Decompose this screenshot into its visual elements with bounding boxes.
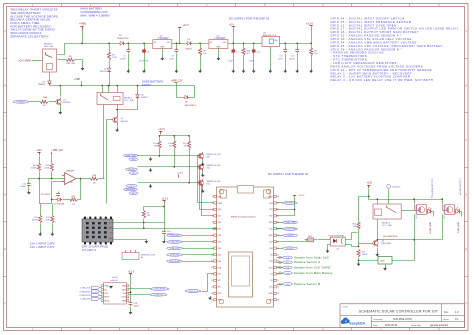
transistor Q1: [55, 98, 62, 106]
wire pullup bus: [161, 135, 190, 136]
wire esp left row1: [198, 156, 214, 203]
wire esp right stub 4: [277, 248, 284, 250]
note gpio list: [331, 16, 459, 82]
label C12: [289, 56, 296, 61]
svg-text:19: 19: [277, 293, 279, 295]
label C4: [228, 52, 239, 63]
net flag V ps: [283, 283, 293, 286]
label M2: [207, 165, 222, 170]
label D4: [185, 39, 193, 50]
resistor R7a: [158, 141, 161, 149]
note safe battery: [142, 80, 163, 88]
label M1: [207, 154, 222, 159]
ground gnd under C11: [283, 69, 287, 73]
wire +VBP bus: [50, 85, 195, 87]
svg-text:R5A: R5A: [43, 96, 48, 99]
label R7a: [153, 143, 157, 148]
wire D5 bot to bus: [49, 85, 51, 87]
resistor R9: [199, 48, 202, 56]
wire lora reset wire: [129, 288, 151, 290]
label R5A: [43, 96, 48, 107]
resistor R5b: [91, 177, 99, 180]
ground gnd C14: [162, 240, 166, 244]
label R5b: [93, 175, 98, 184]
net flag + CAS OPEN: [283, 221, 298, 224]
svg-text:PROXIMITY: PROXIMITY: [285, 203, 296, 205]
net flag LORA_DIO0: [185, 290, 201, 293]
svg-text:10k: 10k: [154, 145, 157, 147]
svg-text:MISO: MISO: [105, 297, 110, 299]
svg-text:Sheet: Sheet: [443, 318, 449, 321]
svg-text:3V3: 3V3: [123, 293, 126, 295]
wire right r24 tap: [359, 197, 369, 223]
net flag V sf: [283, 266, 293, 269]
svg-text:GND: GND: [105, 286, 110, 288]
LED Q7: [456, 207, 460, 214]
ground U5 gnd: [268, 69, 272, 73]
power flag +3.3V esp: [293, 195, 305, 197]
label C15: [20, 184, 27, 189]
wire esp right sample V ps: [277, 284, 284, 286]
junction j led bus: [413, 239, 415, 241]
wire lower div top: [40, 179, 52, 204]
ground gnd row1 left: [149, 157, 153, 161]
power flag +3.3V: [306, 23, 313, 44]
svg-text:+3.3 V: +3.3 V: [177, 173, 184, 175]
wire esp right stub 0: [277, 202, 284, 204]
svg-text:SUN RISE JOHN: SUN RISE JOHN: [393, 318, 412, 321]
wire D6 top: [137, 86, 139, 93]
wire D6 bottom: [118, 101, 138, 110]
net flag GND c: [129, 192, 138, 195]
junction j d6 top: [137, 85, 139, 87]
wire esp right stub 1: [277, 222, 284, 224]
note relay short-circuit: [10, 8, 58, 39]
svg-text:+Q V SAFE: +Q V SAFE: [18, 59, 31, 62]
svg-text:26: 26: [277, 248, 279, 250]
junction j n1: [38, 178, 40, 180]
label R7c: [183, 143, 186, 148]
net flag GND b: [129, 172, 138, 175]
junction j r15 bot: [358, 260, 360, 262]
junction j esp right: [294, 209, 296, 211]
pin mark Vrs.: [279, 261, 282, 263]
wire R17 bot: [52, 224, 54, 233]
wire main rail: [65, 43, 119, 45]
note main battery: [80, 7, 109, 18]
svg-text:GND: GND: [218, 203, 223, 205]
wire lora wire LORA_SCK: [100, 287, 102, 289]
net flag +12V in: [126, 184, 137, 187]
wire R10 bot: [39, 172, 41, 179]
pin mark V sf: [279, 267, 282, 269]
wire lora dio wire: [202, 291, 208, 293]
svg-text:RELAY2: RELAY2: [124, 97, 133, 100]
module U6 LoRa: [101, 277, 129, 304]
junction j pullup 2: [188, 135, 190, 137]
wire +VMB drop: [82, 31, 84, 44]
svg-text:GND: GND: [218, 300, 223, 302]
svg-text:33: 33: [277, 203, 279, 205]
wire R5b to col: [99, 178, 105, 180]
svg-text:U10b: U10b: [380, 261, 385, 263]
ground gnd under C12: [295, 69, 299, 73]
capacitor C11: [283, 48, 287, 53]
svg-text:D34: D34: [218, 267, 221, 269]
svg-text:10k: 10k: [203, 53, 206, 55]
resistor R12: [70, 198, 78, 201]
diode D8: [184, 95, 190, 99]
net flag GND a: [129, 158, 138, 161]
junction rail j9: [253, 43, 255, 45]
ground gnd R15: [357, 262, 361, 266]
ground gnd under C4: [231, 69, 235, 73]
pin mark V ps: [279, 283, 282, 285]
wire R7c bot: [189, 149, 191, 183]
net flag LORA_SCK: [80, 286, 99, 289]
wire branch Q7 bot: [442, 215, 444, 240]
junction j fb: [51, 199, 53, 201]
wire R6 bot: [143, 219, 145, 229]
wire led return bus2: [414, 240, 416, 261]
svg-text:1.5W: 1.5W: [112, 57, 117, 59]
svg-text:11V + INPUT 2.37V: 11V + INPUT 2.37V: [30, 245, 55, 249]
svg-text:MOSI: MOSI: [105, 300, 110, 302]
capacitor C12: [295, 48, 299, 53]
wire lora wire LORA_MISO: [100, 291, 102, 293]
label M4: [141, 255, 156, 260]
label R6 dht: [147, 213, 150, 218]
label D8: [185, 102, 197, 108]
svg-text:L7812ABV: L7812ABV: [158, 37, 169, 40]
net flag ON/OFF: [283, 234, 298, 237]
svg-text:EasyEDA: EasyEDA: [350, 322, 366, 326]
svg-text:C17 100nF: C17 100nF: [41, 194, 51, 196]
svg-text:DHT'S: DHT'S: [83, 217, 89, 219]
svg-text:TITLE:: TITLE:: [342, 306, 348, 308]
resistor R16: [50, 164, 53, 172]
wire esp left row3: [202, 183, 214, 216]
ground gnd row2 left: [149, 168, 153, 172]
wire R7a bot: [159, 149, 161, 156]
wire U2 gnd wire: [162, 49, 164, 57]
relay RELAY1: [43, 49, 57, 72]
wire relay1 coil down: [49, 73, 51, 80]
svg-text:14: 14: [211, 280, 213, 282]
svg-text:1N4007RLG: 1N4007RLG: [117, 38, 129, 40]
wire stub C10 top: [253, 44, 255, 49]
relay RELAY3: [373, 204, 401, 219]
wire branch Q6 out: [431, 212, 434, 217]
junction j r2: [173, 166, 175, 168]
svg-text:21: 21: [277, 280, 279, 282]
svg-text:ESP32: ESP32: [142, 83, 151, 87]
svg-text:12: 12: [211, 267, 213, 269]
wire col x109 mid: [109, 61, 111, 68]
svg-text:1N4748: 1N4748: [99, 71, 107, 73]
wire stub C8 bot: [176, 54, 178, 70]
capacitor C5: [126, 48, 130, 53]
wire Q2 base wire: [107, 120, 112, 204]
wire opamp out: [77, 178, 91, 180]
junction j r15 top: [358, 246, 360, 248]
svg-text:RX0: RX0: [269, 222, 273, 224]
wire esp right sample V sl: [277, 257, 284, 259]
wire pullup R7c top: [189, 136, 191, 142]
wire opto out top: [346, 233, 358, 240]
svg-text:DIO0: DIO0: [122, 297, 126, 299]
capacitor C8: [175, 48, 179, 53]
power flag +12V opamp: [36, 150, 42, 155]
wire stub R9 top: [200, 44, 202, 49]
wire C14 top: [164, 223, 166, 230]
svg-text:CHGLED: CHGLED: [392, 187, 401, 189]
label Q5: [382, 240, 392, 245]
svg-text:LoRa1: LoRa1: [112, 277, 119, 279]
svg-text:2N3904: 2N3904: [121, 121, 129, 123]
svg-text:D33: D33: [218, 248, 221, 250]
svg-text:TO GPIO 4: TO GPIO 4: [82, 248, 96, 252]
svg-text:Drawn By:: Drawn By:: [411, 324, 421, 327]
svg-text:D10 1N4007RLG: D10 1N4007RLG: [383, 236, 398, 238]
wire relay3 bot pin: [377, 220, 379, 240]
svg-text:BSS8123 4-1-3P: BSS8123 4-1-3P: [415, 205, 417, 219]
svg-text:Sample from Solar Cell: Sample from Solar Cell: [294, 255, 329, 259]
power flag +3.3V mid: [177, 173, 184, 178]
wire rail seg6: [280, 43, 312, 45]
svg-text:2019-05-29: 2019-05-29: [385, 324, 398, 327]
wire Q5 emitter: [377, 248, 379, 253]
svg-text:LORA_RESET: LORA_RESET: [169, 260, 180, 263]
junction j led bus2: [377, 239, 379, 241]
svg-text:LORA_DIO0: LORA_DIO0: [188, 290, 198, 293]
svg-text:LORA_RESET: LORA_RESET: [154, 288, 165, 291]
svg-text:GND: GND: [269, 293, 274, 295]
svg-text:10uF: 10uF: [278, 58, 283, 60]
wire M2 source down: [202, 171, 204, 174]
wire rail seg4: [192, 43, 209, 45]
junction j dht vcc2: [163, 206, 165, 208]
ground gnd under C6: [142, 69, 146, 73]
wire relay3 out: [402, 210, 415, 212]
svg-text:100R: 100R: [44, 167, 49, 169]
regulator U2: [153, 35, 172, 48]
label D2: [117, 35, 129, 40]
svg-text:GND: GND: [109, 238, 114, 240]
wire U4 gnd wire: [218, 49, 220, 57]
wire esp right row 209: [277, 196, 295, 210]
svg-text:TS4007: TS4007: [185, 48, 193, 50]
junction j rtb1: [377, 198, 379, 200]
svg-text:25: 25: [277, 254, 279, 256]
svg-text:1: 1: [212, 196, 213, 198]
svg-text:DC SUPPLY FOR THE ESP 32: DC SUPPLY FOR THE ESP 32: [268, 172, 309, 176]
capacitor C10: [252, 48, 256, 54]
svg-text:1N4007RLG: 1N4007RLG: [185, 105, 197, 107]
resistor R2: [107, 52, 110, 60]
svg-text:ON/OFF: ON/OFF: [287, 235, 295, 237]
wire node row: [29, 178, 65, 180]
svg-text:1N4007: 1N4007: [141, 97, 149, 99]
pin mark V sl: [279, 257, 282, 259]
transistor Q6 BSS8123: [414, 205, 426, 215]
junction j r3: [188, 182, 190, 184]
wire esp right sample V sf: [277, 267, 284, 269]
wire R17 top: [52, 204, 54, 216]
svg-text:100R: 100R: [45, 220, 50, 222]
ground gnd M3: [201, 189, 205, 193]
svg-text:Rev:: Rev:: [444, 312, 449, 314]
svg-text:31: 31: [277, 216, 279, 218]
svg-text:ESP32 Development Board: ESP32 Development Board: [231, 216, 255, 219]
junction j lora vcc: [130, 291, 132, 293]
junction j q2c: [116, 109, 118, 111]
label R6b: [247, 51, 252, 56]
svg-text:D32: D32: [218, 254, 221, 256]
svg-text:RELAY1: RELAY1: [44, 43, 53, 46]
label R9: [203, 51, 206, 56]
junction rail j5: [179, 43, 181, 45]
transistor Q2: [111, 116, 118, 124]
svg-text:2: 2: [212, 203, 213, 205]
svg-text:100nF: 100nF: [120, 58, 126, 60]
svg-text:1N4007: 1N4007: [38, 84, 46, 86]
net flag Vrs.: [283, 261, 293, 264]
ground gnd P2: [383, 267, 387, 271]
net flag ON OFF: [126, 168, 138, 171]
net flag LORA_SCK esp: [167, 234, 183, 237]
wire rail seg5: [228, 43, 263, 45]
svg-text:Rds: Rds: [207, 157, 210, 159]
svg-text:Date:: Date:: [373, 324, 379, 327]
svg-text:D26: D26: [218, 235, 221, 237]
label C18: [134, 303, 140, 308]
junction rail j4: [176, 43, 178, 45]
svg-text:6: 6: [212, 228, 213, 230]
net flag V mb: [283, 272, 293, 275]
svg-text:9: 9: [212, 248, 213, 250]
net flag LORA_DIO0 lora: [150, 293, 167, 296]
label R17: [45, 217, 51, 222]
wire stub C5 bot: [128, 54, 130, 70]
transistor M1 BSS8123: [197, 152, 204, 160]
label R12: [72, 196, 77, 205]
svg-text:+12V: +12V: [36, 150, 42, 152]
svg-text:SEPARATE 12V BATTERY: SEPARATE 12V BATTERY: [10, 34, 49, 38]
label M3: [207, 181, 222, 186]
svg-text:10k: 10k: [72, 203, 75, 205]
svg-text:D13: D13: [218, 209, 221, 211]
resistor R5: [67, 58, 75, 61]
resistor R17: [51, 216, 54, 224]
svg-text:CASE OPEN: CASE OPEN: [125, 154, 136, 157]
svg-text:+3.3 V: +3.3 V: [158, 129, 165, 131]
wire stub C6 top: [144, 44, 146, 49]
wire stub C5 top: [128, 44, 130, 49]
wire base wire: [359, 243, 372, 245]
wire lora dio0 wire: [129, 294, 151, 296]
svg-text:A2: A2: [141, 256, 143, 259]
svg-text:TX0: TX0: [269, 216, 272, 218]
wire pullup R7a top: [159, 136, 161, 142]
svg-text:3V3: 3V3: [218, 293, 221, 295]
resistor R24: [357, 222, 360, 230]
wire lora wire LORA_NSS: [100, 298, 102, 300]
regulator U5: [262, 33, 280, 47]
svg-text:GND: GND: [122, 286, 127, 288]
wire esp right stub 2: [277, 228, 284, 230]
svg-text:BSS8123 4-1-3P: BSS8123 4-1-3P: [443, 205, 445, 219]
wire stub C4 bot: [233, 55, 235, 70]
wire stub C8 top: [176, 44, 178, 49]
net flag LORA_MISO: [79, 290, 99, 293]
svg-text:D18: D18: [269, 248, 272, 250]
svg-text:LoRa-02: LoRa-02: [110, 280, 119, 282]
svg-text:D4: D4: [270, 274, 272, 276]
wire R5A to Q1: [49, 101, 55, 103]
wire esp left LORA_NSS: [183, 254, 214, 256]
wire fb left: [52, 182, 65, 200]
svg-text:RELAY3: RELAY3: [382, 221, 391, 224]
ground gnd under C5: [126, 69, 130, 73]
svg-text:V ps: V ps: [286, 284, 290, 286]
transistor M3 BSS8123: [197, 179, 204, 187]
svg-text:Vrs.: Vrs.: [286, 262, 290, 264]
ground gnd under R8: [309, 69, 313, 73]
wire esp left dht: [214, 228, 218, 230]
svg-text:13: 13: [211, 274, 213, 276]
wire stub R6b bot: [243, 56, 245, 70]
transistor Q7 BSS8123: [442, 205, 454, 215]
resistor R7c: [187, 141, 190, 149]
transistor M2 BSS8123: [197, 163, 204, 171]
wire M1 source down: [202, 160, 204, 163]
resistor R14: [305, 236, 318, 242]
label R11: [32, 217, 39, 222]
wire stub R8 top: [311, 44, 313, 49]
wire M3 source down: [202, 187, 204, 190]
svg-text:PC817D6200PGB: PC817D6200PGB: [329, 235, 345, 237]
wire Q1 collector up: [60, 86, 62, 97]
svg-text:LORA_MOSI: LORA_MOSI: [170, 247, 180, 250]
svg-text:+3.3 V: +3.3 V: [298, 195, 305, 197]
capacitor C15: [27, 182, 31, 187]
diode D4: [186, 42, 192, 46]
junction rail j12: [296, 43, 298, 45]
svg-text:17: 17: [211, 299, 213, 301]
junction rail j13: [310, 43, 312, 45]
net flag MOSFET: [283, 247, 298, 250]
title block: [340, 304, 465, 328]
ground gnd C15: [27, 191, 31, 195]
wire stub C10 bot: [253, 55, 255, 70]
svg-text:LORA_SCK: LORA_SCK: [170, 234, 180, 237]
wire lora cap bot: [130, 307, 132, 311]
junction rail j8: [243, 43, 245, 45]
svg-text:DATA: DATA: [108, 227, 113, 230]
svg-text:PRESENCE: PRESENCE: [126, 189, 136, 191]
net flag PROXIMITY: [283, 202, 298, 205]
wire relay2 pins up: [102, 86, 104, 93]
junction j dht vcc: [143, 222, 145, 224]
wire C15 top: [28, 179, 30, 182]
junction rail j3: [143, 43, 145, 45]
connector P2: [378, 257, 392, 265]
wire p2 gnd: [385, 265, 387, 267]
svg-text:+ CAS OPEN: + CAS OPEN: [285, 221, 297, 224]
svg-text:18: 18: [277, 299, 279, 301]
resistor R6 dht: [142, 211, 145, 219]
